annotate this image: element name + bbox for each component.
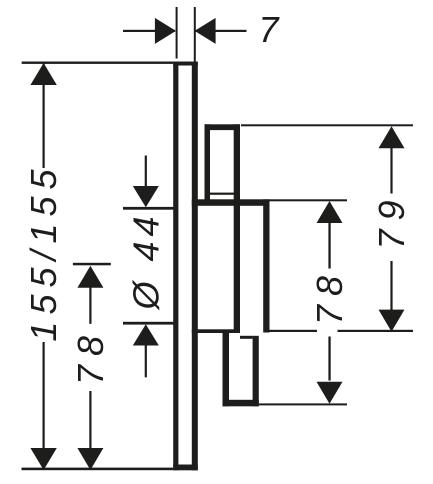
extension line top-left (plate top) [22, 62, 174, 64]
svg-text:Ø 44: Ø 44 [126, 211, 167, 310]
dimension 7: extension lines [176, 7, 178, 59]
dimension Ø44: leaders, arrows, ticks [145, 156, 147, 187]
svg-text:79: 79 [371, 191, 412, 249]
middle escutcheon box [192, 199, 270, 333]
wall plate (side view outline) [173, 62, 198, 471]
svg-text:78: 78 [70, 327, 111, 385]
dimension 79: line, arrows [390, 148, 392, 194]
dimension 155/155: line, arrows [43, 64, 45, 169]
dimension 78 right: extension lines [270, 199, 348, 201]
extension line bottom-left (plate bottom) [22, 468, 174, 471]
dimension 78 right: line, arrows [328, 223, 330, 269]
upper valve body box [205, 124, 241, 333]
lower valve body box [223, 331, 259, 406]
svg-text:7: 7 [258, 9, 280, 50]
svg-text:155/155: 155/155 [23, 162, 64, 341]
dimension 79: extension lines [241, 124, 413, 126]
dimension 7: right leader and arrow [195, 30, 247, 32]
dimension 78 left: tick, line, arrows [73, 263, 111, 266]
dimension 7: left leader and arrow [123, 30, 175, 32]
svg-text:78: 78 [309, 267, 350, 325]
